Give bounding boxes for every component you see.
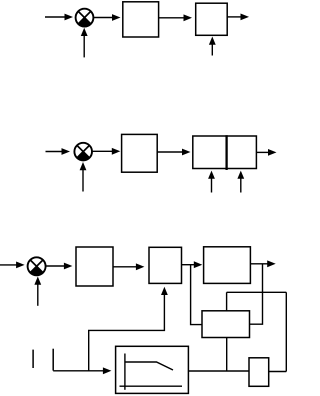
wire up arrow into G2 [209,37,216,56]
double block row2 [193,136,257,169]
wire up arrow 1 into double block [208,171,215,193]
block G6 row3 [204,247,251,284]
wire up arrow 2 into double block [237,171,244,193]
wire arrow into curve block [53,367,111,374]
wire right side vertical [285,292,287,371]
block G1 row1 [123,2,159,37]
block G5 row3 [149,247,182,283]
block G3 row2 [122,134,158,172]
wire G5 to G6 [182,261,203,268]
wire output arrow row1 [227,14,249,21]
wire G1 to G2 [159,14,192,21]
block H1 [202,311,250,338]
wire branch from G6 output down to block H1 right [250,264,263,324]
wire G3 to double block [157,149,190,156]
wire output arrow row2 [256,149,276,156]
block G2 row1 [196,3,228,35]
wire input arrow row1 [45,14,73,21]
wire input arrow row3 [0,262,25,269]
summing junction S3 [28,257,46,275]
wire up arrow into S2 [80,162,87,192]
wire curve block to block B6 [188,370,249,372]
wire branch from G5 output down to block H1 left [191,265,202,325]
wire G4 to G5 [113,263,144,270]
wire up arrow into S3 [34,277,41,306]
summing junction S2 [74,143,92,161]
summing junction S1 [76,9,94,27]
curve block (saturation characteristic) [116,346,189,393]
wire output arrow row3 [250,260,275,267]
wire right side into block B6 [269,371,287,373]
divider of double block [225,135,227,170]
bar mark 1 [32,350,34,368]
wire S2 to block G3 [92,148,120,155]
block B6 [249,358,269,387]
bar mark 2 [52,349,54,371]
wire horizontal feedback line top [227,291,287,293]
wire down to H1 top [226,292,228,311]
block G4 row3 [76,247,113,286]
wire S1 to block G1 [94,14,121,21]
wire feedback up arrow into G5 bottom [89,287,168,371]
wire up arrow into S1 [81,28,88,58]
wire S3 to block G4 [46,263,73,270]
wire input arrow row2 [46,148,71,155]
wire H1 bottom branch down [226,338,228,372]
